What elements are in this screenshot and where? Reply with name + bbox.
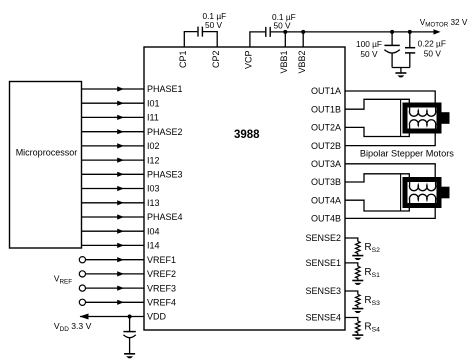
resistor RS3 xyxy=(355,294,360,308)
wire I04 from microprocessor xyxy=(82,229,145,234)
capacitor 100uF 50V (polarized) xyxy=(384,32,399,68)
wire OUT3B to motor M2 winding 1 xyxy=(345,174,409,182)
svg-text:I03: I03 xyxy=(147,184,160,194)
svg-text:Microprocessor: Microprocessor xyxy=(16,147,78,157)
value label 0.1uF 50V (CP cap) xyxy=(203,11,227,30)
wire VCP stub xyxy=(250,32,265,47)
wire I03 from microprocessor xyxy=(82,186,145,191)
svg-text:I11: I11 xyxy=(147,113,159,123)
svg-text:VDD: VDD xyxy=(147,312,167,322)
wire OUT3A to motor M2 top xyxy=(345,164,435,180)
ground below RS1 xyxy=(352,281,363,285)
microprocessor box xyxy=(10,82,82,249)
junction 100uF cap xyxy=(390,30,394,34)
wire VREF4 with input terminal circle xyxy=(79,299,144,305)
stepper motor M2 xyxy=(401,174,450,211)
svg-text:I04: I04 xyxy=(147,226,160,236)
wire OUT4A to motor M2 winding 2 xyxy=(345,200,409,211)
svg-text:I12: I12 xyxy=(147,155,160,165)
wire I02 from microprocessor xyxy=(82,143,145,148)
wire VBB2 stub xyxy=(302,32,304,47)
wire OUT1B to motor M1 winding 1 xyxy=(345,99,409,109)
wire OUT4B to motor M2 bottom xyxy=(345,206,435,219)
svg-text:VREF4: VREF4 xyxy=(147,298,176,308)
wire CP1 stub xyxy=(184,32,197,47)
wire VREF3 with input terminal circle xyxy=(79,285,144,291)
svg-text:50 V: 50 V xyxy=(360,49,378,59)
wire OUT1A to motor M1 top xyxy=(345,91,435,105)
svg-text:I14: I14 xyxy=(147,241,160,251)
wire VBB supply rail to VMOTOR xyxy=(271,29,441,34)
svg-text:100 µF: 100 µF xyxy=(356,39,382,49)
wire OUT2B to motor M1 bottom xyxy=(345,131,435,146)
wire PHASE1 from microprocessor xyxy=(82,86,145,91)
svg-text:I02: I02 xyxy=(147,141,160,151)
svg-text:50 V: 50 V xyxy=(205,20,223,30)
wire CP2 stub xyxy=(203,32,217,47)
wire joining cap bottoms xyxy=(392,68,410,74)
svg-text:OUT3B: OUT3B xyxy=(311,177,341,187)
svg-text:VBB2: VBB2 xyxy=(297,51,307,74)
wire SENSE2 to sense resistor xyxy=(345,238,358,241)
svg-text:I13: I13 xyxy=(147,198,160,208)
wire VBB1 stub xyxy=(284,32,286,47)
resistor RS4 xyxy=(355,321,360,335)
wire SENSE4 to sense resistor xyxy=(345,318,358,321)
svg-text:3988: 3988 xyxy=(234,129,260,141)
wire I01 from microprocessor xyxy=(82,101,145,106)
value label 0.1uF 50V (VCP cap) xyxy=(272,12,296,31)
svg-text:OUT4A: OUT4A xyxy=(311,195,341,205)
capacitor 0.22uF 50V xyxy=(405,32,415,68)
value label 0.22uF 50V xyxy=(418,38,446,58)
svg-text:PHASE3: PHASE3 xyxy=(147,170,183,180)
svg-text:OUT2A: OUT2A xyxy=(311,123,341,133)
ground below RS4 xyxy=(352,335,363,339)
svg-text:VBB1: VBB1 xyxy=(279,51,289,74)
resistor RS1 xyxy=(355,266,360,280)
svg-text:OUT1A: OUT1A xyxy=(311,86,341,96)
svg-text:50 V: 50 V xyxy=(424,48,442,58)
wire SENSE1 to sense resistor xyxy=(345,263,358,266)
wire OUT2A to motor M1 winding 2 xyxy=(345,127,409,136)
svg-text:Bipolar Stepper Motors: Bipolar Stepper Motors xyxy=(360,149,454,159)
wire I11 from microprocessor xyxy=(82,115,145,120)
stepper motor M1 xyxy=(401,99,450,136)
svg-text:SENSE2: SENSE2 xyxy=(305,233,341,243)
svg-text:SENSE4: SENSE4 xyxy=(305,313,341,323)
svg-text:SENSE3: SENSE3 xyxy=(305,286,341,296)
svg-text:VREF2: VREF2 xyxy=(147,269,176,279)
ground below RS2 xyxy=(352,256,363,260)
svg-text:I01: I01 xyxy=(147,98,160,108)
svg-text:OUT2B: OUT2B xyxy=(311,141,341,151)
capacitor VDD bypass (polarized) xyxy=(123,317,135,354)
wire PHASE4 from microprocessor xyxy=(82,214,145,219)
svg-text:OUT4B: OUT4B xyxy=(311,214,341,224)
svg-text:50 V: 50 V xyxy=(274,20,292,30)
svg-text:VREF1: VREF1 xyxy=(147,255,176,265)
wire VREF2 with input terminal circle xyxy=(79,271,144,277)
svg-text:PHASE1: PHASE1 xyxy=(147,84,183,94)
wire VDD 3.3V supply xyxy=(80,314,145,320)
svg-text:CP1: CP1 xyxy=(178,51,188,69)
svg-text:0.22 µF: 0.22 µF xyxy=(418,38,446,48)
ground below VDD capacitor xyxy=(124,354,135,358)
ground below RS3 xyxy=(352,309,363,313)
wire I13 from microprocessor xyxy=(82,200,145,205)
svg-text:VREF3: VREF3 xyxy=(147,283,176,293)
svg-text:PHASE2: PHASE2 xyxy=(147,127,183,137)
value label 100uF 50V xyxy=(356,39,382,59)
junction 0.22uF cap xyxy=(408,30,412,34)
resistor RS2 xyxy=(355,241,360,255)
junction VBB1 xyxy=(283,30,287,34)
junction on VDD wire xyxy=(128,315,132,319)
svg-text:VCP: VCP xyxy=(244,51,254,70)
svg-text:SENSE1: SENSE1 xyxy=(305,258,341,268)
svg-text:PHASE4: PHASE4 xyxy=(147,212,183,222)
capacitor 0.1uF across CP1-CP2 xyxy=(198,27,202,37)
capacitor 0.1uF VCP reservoir xyxy=(266,27,270,37)
wire I14 from microprocessor xyxy=(82,243,145,248)
svg-text:OUT1B: OUT1B xyxy=(311,104,341,114)
svg-text:OUT3A: OUT3A xyxy=(311,159,341,169)
ground below supply caps xyxy=(395,73,406,77)
junction VBB2 xyxy=(301,30,305,34)
wire VREF1 with input terminal circle xyxy=(79,257,144,263)
svg-text:CP2: CP2 xyxy=(211,51,221,69)
wire SENSE3 to sense resistor xyxy=(345,291,358,294)
wire I12 from microprocessor xyxy=(82,158,145,163)
wire PHASE2 from microprocessor xyxy=(82,129,145,134)
wire PHASE3 from microprocessor xyxy=(82,172,145,177)
chip U1 3988 body xyxy=(144,47,345,330)
